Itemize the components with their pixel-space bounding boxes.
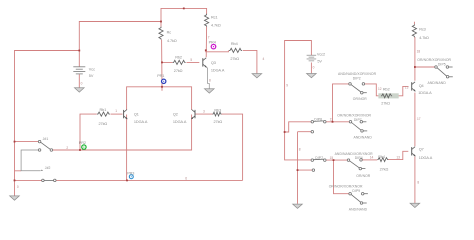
junction dots left circuit	[14, 8, 207, 182]
probe PR4 magenta	[209, 40, 217, 49]
wire Q3 collector node to Rb4	[206, 50, 257, 73]
transistor Q7	[412, 147, 433, 160]
svg-text:Rc1: Rc1	[211, 16, 218, 20]
wire Rc bottom to collector node	[161, 40, 163, 91]
wire DIP2 upper throw to Rb2	[365, 84, 382, 96]
svg-text:4.7kΩ: 4.7kΩ	[167, 39, 177, 43]
svg-text:5V: 5V	[89, 74, 94, 78]
svg-text:AND/NAND: AND/NAND	[349, 207, 368, 211]
svg-text:1DGA.A: 1DGA.A	[419, 156, 433, 160]
wire ground line with input throws	[298, 132, 313, 204]
RIGHT CIRCUIT	[285, 22, 435, 204]
svg-text:AND/NAND/XOR/XNOR: AND/NAND/XOR/XNOR	[338, 72, 377, 76]
ground under battery Vcc2	[307, 74, 317, 78]
svg-text:Q1: Q1	[134, 113, 139, 117]
wire jog from rail to input C switch	[285, 122, 311, 132]
svg-text:J#2: J#2	[45, 166, 51, 170]
wire Q3 emitter to ground	[206, 67, 209, 89]
svg-text:27kΩ: 27kΩ	[99, 122, 108, 126]
wire Vcc top rail from battery to Rc top	[79, 8, 206, 66]
svg-text:4: 4	[263, 57, 265, 61]
svg-text:DIP2: DIP2	[353, 77, 361, 81]
switch J2	[41, 166, 57, 182]
resistor Rb3 27k	[213, 112, 222, 116]
svg-text:27kΩ: 27kΩ	[230, 57, 239, 61]
svg-text:4.7kΩ: 4.7kΩ	[419, 36, 429, 40]
svg-text:7: 7	[208, 35, 210, 39]
svg-text:PR1: PR1	[157, 74, 164, 78]
ground at right circuit ground line	[293, 204, 303, 208]
svg-text:1DGA.A: 1DGA.A	[134, 120, 148, 124]
switch DIP2	[338, 72, 377, 101]
svg-text:AND/NAND: AND/NAND	[428, 81, 447, 85]
svg-text:18: 18	[417, 50, 421, 54]
resistor Rc1 4.7k	[205, 14, 209, 27]
svg-text:1DGA.A: 1DGA.A	[418, 91, 432, 95]
svg-text:OR/NOR: OR/NOR	[353, 97, 368, 101]
svg-text:Q7: Q7	[419, 147, 424, 151]
wire Rb2 branch to Q3 base	[162, 61, 199, 63]
wire DIP4 upper throw to Rb4	[362, 159, 377, 161]
svg-text:8: 8	[417, 181, 419, 185]
svg-text:OR/NOR: OR/NOR	[356, 174, 371, 178]
svg-text:Rb4: Rb4	[231, 42, 238, 46]
transistor Q2 mirrored	[173, 110, 195, 125]
svg-text:27kΩ: 27kΩ	[214, 120, 223, 124]
svg-text:Rc: Rc	[167, 30, 172, 34]
switch DIP4	[335, 152, 374, 178]
svg-text:AND/NAND: AND/NAND	[354, 135, 373, 139]
transistor Q1	[124, 110, 148, 125]
svg-text:Vcc2: Vcc2	[317, 53, 325, 57]
wire Rb3 right down to bottom rail	[222, 114, 243, 180]
probe PR1 blue	[157, 74, 166, 84]
svg-text:6: 6	[185, 177, 187, 181]
wire J1 lower throw to J2 upper throw	[21, 150, 40, 171]
svg-text:PR4: PR4	[209, 40, 216, 44]
switch J1	[38, 137, 52, 151]
svg-text:Rb2: Rb2	[175, 55, 182, 59]
resistor Rc 4.7k	[159, 27, 163, 40]
ground at Rb4 right	[252, 74, 262, 78]
wire input C pole to DIP7 pole	[326, 121, 349, 123]
LEFT CIRCUIT	[15, 8, 257, 180]
battery V2 Vcc2 5V	[307, 55, 317, 61]
resistor Rb4 27k to ground	[229, 48, 242, 52]
svg-text:3: 3	[203, 110, 205, 114]
probe PR2 green	[79, 141, 87, 150]
wire Rb1 to Q1 base	[111, 113, 123, 115]
svg-text:Q4: Q4	[419, 84, 424, 88]
svg-text:13: 13	[405, 86, 409, 90]
transistor Q4	[412, 82, 432, 95]
svg-text:14: 14	[370, 156, 374, 160]
wire Rb2 to Q4 base	[395, 86, 409, 95]
svg-text:DIP5: DIP5	[438, 62, 446, 66]
svg-text:Rb4: Rb4	[378, 155, 385, 159]
wire Q1 emitter down to bottom rail	[126, 115, 128, 181]
svg-text:4.7kΩ: 4.7kΩ	[211, 24, 221, 28]
svg-text:5V: 5V	[317, 59, 322, 63]
svg-text:Vcc: Vcc	[89, 67, 95, 71]
svg-text:5: 5	[190, 58, 192, 62]
wire J1 top throw feed	[15, 142, 39, 171]
svg-text:17: 17	[417, 117, 421, 121]
svg-text:1DGA.A: 1DGA.A	[173, 120, 187, 124]
svg-text:27kΩ: 27kΩ	[380, 168, 389, 172]
svg-text:13: 13	[396, 155, 400, 159]
ground at Q7 emitter	[410, 203, 420, 207]
svg-text:1: 1	[115, 109, 117, 113]
svg-text:11: 11	[330, 117, 334, 121]
svg-text:27kΩ: 27kΩ	[381, 101, 390, 105]
wire battery Vcc2 minus to ground	[310, 63, 312, 74]
wire Q4 collector up to Rc3	[414, 37, 416, 81]
wire input A row from J1 pole to Q2 emitter	[53, 115, 192, 151]
resistor Rc3 4.7k	[412, 24, 416, 37]
svg-text:Rc3: Rc3	[419, 28, 426, 32]
resistor Rb2 27k to Q3	[173, 60, 186, 64]
svg-text:2: 2	[66, 146, 68, 150]
ground under battery V1	[75, 88, 85, 92]
svg-text:9: 9	[286, 84, 288, 88]
switch DIP7 output mid	[337, 114, 372, 140]
resistor Rb1 27k	[97, 112, 110, 116]
wire Q4 emitter down to Q7 collector net 17	[414, 93, 416, 147]
svg-text:27kΩ: 27kΩ	[174, 69, 183, 73]
wire Q2 base to Rb3	[195, 113, 212, 115]
wire Rc3 top stub	[413, 22, 415, 25]
switch input D lower	[311, 156, 326, 171]
resistor Rb2 27k selected	[378, 87, 399, 105]
wire battery minus to ground	[78, 74, 80, 87]
wire collector node rail Q1.C to Q2.C	[127, 87, 192, 110]
probe PR3 blue	[127, 171, 134, 179]
svg-text:0: 0	[17, 185, 19, 189]
svg-text:OR/NOR/XOR/XNOR: OR/NOR/XOR/XNOR	[417, 58, 451, 62]
svg-text:DIP9: DIP9	[352, 189, 360, 193]
switch DIP9 output bottom	[329, 185, 368, 212]
svg-text:0: 0	[313, 66, 315, 70]
wire collector node to DIP5 pole	[415, 66, 435, 68]
svg-text:8: 8	[209, 79, 211, 83]
wire Rc top stub	[160, 22, 162, 27]
svg-text:0: 0	[81, 81, 83, 85]
svg-text:J#1: J#1	[43, 137, 49, 141]
ground at bottom left	[10, 180, 20, 200]
transistor Q3	[203, 58, 225, 73]
ground at Q3 emitter	[205, 89, 215, 93]
svg-text:Rb3: Rb3	[214, 108, 221, 112]
wire Rb4 to Q7 base	[388, 151, 408, 159]
wire input D pole to DIP4 pole	[326, 159, 347, 161]
svg-text:Rb1: Rb1	[100, 108, 107, 112]
switch DIP5 output top	[417, 58, 453, 85]
svg-text:Q3: Q3	[211, 61, 216, 65]
wire Vcc2 top loop and main rail	[285, 41, 312, 160]
wire Q7 emitter to ground	[414, 157, 416, 203]
svg-text:8: 8	[299, 147, 301, 151]
resistor Rb4 27k right	[377, 155, 388, 172]
wire Rc1 bottom to Q3 collector	[205, 27, 207, 58]
wire PR2 node up to Rb1	[80, 114, 97, 150]
wire battery plus to left Vcc drop	[15, 51, 80, 181]
svg-text:12: 12	[378, 87, 382, 91]
junction dots right circuit	[284, 66, 416, 171]
svg-text:Rb2: Rb2	[383, 87, 390, 91]
wire input C node up to DIP2 pole	[333, 84, 349, 122]
wire input D node down to DIP9 pole	[334, 160, 349, 194]
svg-text:Q2: Q2	[173, 113, 178, 117]
svg-text:1DGA.A: 1DGA.A	[211, 68, 225, 72]
battery V1 Vcc 5V	[73, 67, 85, 74]
switch input C upper	[311, 118, 326, 133]
wire bottom rail input B	[15, 179, 243, 181]
